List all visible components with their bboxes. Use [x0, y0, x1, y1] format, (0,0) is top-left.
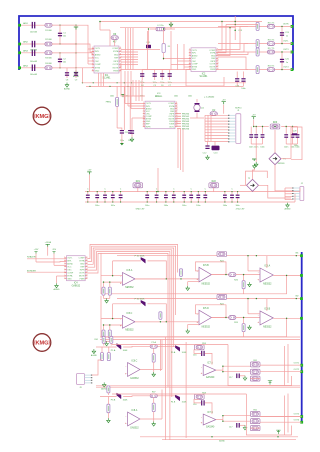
svg-text:12: 12	[176, 105, 178, 107]
svg-text:16: 16	[86, 277, 88, 279]
svg-text:GA5340: GA5340	[206, 376, 215, 379]
svg-text:GA5340: GA5340	[206, 426, 215, 429]
svg-text:100n: 100n	[95, 205, 99, 207]
svg-text:+: +	[201, 421, 203, 425]
svg-text:OSC: OSC	[95, 61, 100, 63]
svg-text:IC8.C: IC8.C	[131, 360, 137, 362]
svg-text:AGND: AGND	[67, 263, 73, 266]
svg-text:INPR: INPR	[211, 61, 216, 63]
svg-text:P2.A: P2.A	[152, 341, 157, 344]
svg-text:1n: 1n	[286, 62, 288, 64]
svg-text:AGND: AGND	[95, 54, 101, 57]
svg-text:13: 13	[176, 107, 178, 109]
svg-text:-: -	[201, 365, 202, 369]
svg-text:IC5.C: IC5.C	[126, 313, 132, 315]
svg-text:NE5532: NE5532	[202, 326, 211, 328]
svg-text:100n: 100n	[241, 88, 245, 90]
svg-text:IC5.A: IC5.A	[127, 269, 133, 272]
svg-text:P1.A: P1.A	[111, 349, 116, 352]
svg-text:GND: GND	[211, 55, 216, 57]
svg-text:100n: 100n	[164, 205, 168, 207]
svg-text:+5V: +5V	[87, 170, 91, 172]
svg-text:OUTR: OUTR	[283, 23, 289, 25]
svg-text:IC8.A: IC8.A	[132, 409, 138, 412]
svg-text:10n: 10n	[63, 36, 66, 38]
svg-text:100n/63: 100n/63	[30, 50, 38, 52]
svg-text:100n: 100n	[284, 147, 288, 149]
svg-text:-: -	[258, 270, 259, 274]
svg-text:AGND: AGND	[64, 88, 71, 91]
svg-text:VCC: VCC	[95, 58, 100, 60]
svg-text:P 10 100K: P 10 100K	[135, 299, 145, 301]
svg-text:SL1461: SL1461	[200, 76, 209, 78]
svg-text:R2 680: R2 680	[45, 39, 52, 41]
svg-text:R22: R22	[212, 181, 217, 183]
svg-text:100n: 100n	[294, 145, 298, 147]
svg-text:100n: 100n	[249, 147, 253, 149]
svg-text:MUTE: MUTE	[210, 66, 216, 68]
svg-text:AGND: AGND	[91, 354, 98, 357]
svg-text:AGND: AGND	[219, 440, 225, 443]
svg-text:IC7.B: IC7.B	[207, 412, 213, 414]
svg-text:R41: R41	[95, 339, 98, 341]
svg-text:INPR: INPR	[146, 126, 151, 128]
svg-text:-: -	[125, 364, 126, 368]
svg-text:C16: C16	[235, 86, 238, 88]
svg-text:COMP: COMP	[95, 64, 102, 66]
svg-text:OUTR: OUTR	[210, 64, 216, 66]
svg-text:+: +	[196, 277, 198, 281]
svg-text:BYPA: BYPA	[113, 50, 119, 53]
svg-text:VCC: VCC	[192, 58, 197, 60]
svg-text:100n: 100n	[188, 96, 192, 98]
svg-text:MUTE: MUTE	[79, 275, 85, 277]
svg-text:COMP: COMP	[67, 272, 74, 274]
svg-text:FMIN: FMIN	[210, 69, 215, 71]
svg-text:NE5532: NE5532	[263, 284, 272, 286]
svg-text:+: +	[125, 372, 127, 376]
svg-text:NE5532: NE5532	[202, 283, 211, 285]
svg-text:OUT2: OUT2	[294, 369, 300, 371]
svg-text:1n: 1n	[286, 35, 288, 37]
svg-text:IC6.B: IC6.B	[264, 309, 270, 311]
svg-text:10n: 10n	[63, 62, 66, 64]
svg-text:+5V: +5V	[222, 99, 226, 101]
svg-text:GND: GND	[67, 278, 72, 280]
svg-text:+: +	[201, 371, 203, 375]
svg-text:BYPA: BYPA	[210, 52, 216, 55]
svg-text:GA9632: GA9632	[72, 284, 81, 287]
svg-text:100n: 100n	[182, 205, 186, 207]
svg-text:100K: 100K	[123, 399, 128, 401]
svg-text:100n: 100n	[223, 205, 227, 207]
svg-text:BYPA: BYPA	[67, 274, 73, 277]
svg-text:R18 75: R18 75	[268, 66, 275, 68]
svg-text:R3 680: R3 680	[45, 58, 52, 60]
svg-text:= C.28442: = C.28442	[204, 97, 215, 99]
svg-text:100K: 100K	[182, 402, 187, 404]
svg-text:BYPA: BYPA	[79, 260, 85, 263]
svg-text:100K: 100K	[182, 352, 187, 354]
svg-text:SUP10: SUP10	[235, 108, 242, 110]
svg-text:15: 15	[86, 274, 88, 276]
svg-text:-: -	[125, 414, 126, 418]
svg-text:IC6.A: IC6.A	[264, 265, 270, 268]
svg-text:GND: GND	[80, 264, 85, 266]
svg-text:COMP: COMP	[112, 48, 119, 50]
svg-text:OSC: OSC	[192, 61, 197, 63]
svg-text:OUT6: OUT6	[294, 419, 300, 421]
svg-text:14: 14	[217, 62, 219, 64]
svg-text:2N2369: 2N2369	[277, 163, 285, 165]
svg-text:IC5.B: IC5.B	[203, 265, 209, 267]
svg-text:MUTE: MUTE	[113, 67, 119, 69]
svg-text:14: 14	[176, 110, 178, 112]
svg-text:+: +	[257, 320, 259, 324]
svg-text:R1 680: R1 680	[45, 30, 52, 32]
svg-text:100n: 100n	[145, 205, 149, 207]
svg-text:P4.B: P4.B	[171, 402, 176, 404]
svg-text:+5V: +5V	[252, 114, 256, 116]
svg-text:FREQ: FREQ	[106, 102, 112, 104]
svg-text:GND: GND	[95, 71, 100, 73]
svg-text:R4 680: R4 680	[45, 63, 52, 65]
svg-text:+15VA: +15VA	[44, 241, 51, 244]
svg-text:AGND: AGND	[146, 107, 152, 110]
svg-text:100n: 100n	[196, 205, 200, 207]
svg-text:100n/63: 100n/63	[30, 32, 38, 34]
svg-text:FMIN: FMIN	[80, 278, 85, 280]
svg-text:OUT3: OUT3	[283, 49, 289, 51]
svg-text:100n: 100n	[155, 96, 159, 98]
svg-text:100n/63: 100n/63	[30, 74, 38, 76]
svg-text:470u LEV: 470u LEV	[236, 209, 245, 211]
svg-text:-15V: -15V	[52, 249, 57, 251]
svg-text:IC5.D: IC5.D	[203, 308, 209, 310]
svg-text:100n: 100n	[110, 96, 114, 98]
svg-text:-: -	[197, 269, 198, 273]
svg-text:FMIN: FMIN	[113, 71, 118, 73]
svg-text:KMG: KMG	[35, 114, 48, 120]
svg-text:IC7.A: IC7.A	[207, 361, 213, 364]
svg-text:OUT5: OUT5	[294, 414, 300, 416]
svg-text:VCC: VCC	[67, 267, 72, 269]
svg-text:R16 75: R16 75	[268, 40, 275, 42]
svg-text:GND: GND	[192, 69, 197, 71]
svg-text:P3.B: P3.B	[111, 399, 116, 401]
svg-text:+15V: +15V	[34, 249, 39, 251]
svg-text:INPR: INPR	[80, 270, 85, 272]
svg-text:+: +	[196, 320, 198, 324]
svg-text:13: 13	[217, 60, 219, 62]
svg-text:+: +	[257, 277, 259, 281]
svg-text:+: +	[120, 281, 122, 285]
svg-text:+: +	[120, 324, 122, 328]
svg-text:AGND: AGND	[192, 54, 198, 57]
svg-text:GA5532: GA5532	[130, 426, 139, 429]
svg-text:OUTL: OUTL	[283, 41, 289, 43]
svg-text:100n: 100n	[111, 205, 115, 207]
svg-text:OUTL: OUTL	[95, 48, 101, 50]
svg-text:BYPA: BYPA	[146, 118, 152, 121]
svg-text:OUTL: OUTL	[67, 258, 73, 260]
svg-text:100n: 100n	[235, 205, 239, 207]
svg-text:-: -	[197, 312, 198, 316]
svg-text:OUTR: OUTR	[113, 64, 119, 66]
svg-text:P5.A: P5.A	[171, 351, 176, 354]
svg-text:100n: 100n	[174, 96, 178, 98]
svg-text:AGND: AGND	[284, 208, 291, 211]
svg-text:L2 22u: L2 22u	[157, 25, 164, 27]
svg-text:KMG: KMG	[35, 341, 48, 347]
svg-text:BYPA: BYPA	[95, 66, 101, 69]
svg-text:100K: 100K	[123, 350, 128, 352]
svg-text:9: 9	[120, 47, 121, 49]
svg-text:100n: 100n	[260, 147, 264, 149]
svg-text:9: 9	[86, 257, 87, 259]
svg-text:P 10 100K: P 10 100K	[135, 256, 145, 258]
svg-text:NE5532: NE5532	[263, 326, 272, 328]
svg-text:INPR: INPR	[114, 61, 119, 63]
svg-text:COMP: COMP	[209, 50, 216, 52]
svg-text:13: 13	[120, 60, 122, 62]
svg-text:R17 75: R17 75	[268, 48, 275, 50]
svg-text:R15 75: R15 75	[268, 22, 275, 24]
svg-text:AGND: AGND	[53, 288, 60, 291]
svg-text:OUTL: OUTL	[192, 50, 198, 52]
svg-text:15: 15	[217, 65, 219, 67]
svg-text:OUTR: OUTR	[79, 272, 85, 274]
svg-text:-: -	[258, 313, 259, 317]
svg-text:-: -	[201, 415, 202, 419]
svg-text:R21: R21	[136, 181, 141, 183]
svg-text:NE5532: NE5532	[125, 287, 134, 289]
svg-text:BYPA: BYPA	[192, 65, 198, 68]
svg-text:OUT4: OUT4	[283, 67, 289, 69]
svg-text:GA5532: GA5532	[130, 377, 139, 380]
svg-text:NE5532: NE5532	[125, 330, 134, 332]
svg-text:OUTL: OUTL	[169, 126, 175, 128]
svg-text:COMP: COMP	[192, 64, 199, 66]
svg-text:+: +	[125, 421, 127, 425]
svg-text:COMP: COMP	[79, 258, 86, 260]
svg-text:R20: R20	[273, 122, 278, 124]
svg-text:OSC: OSC	[67, 270, 72, 272]
svg-text:GND LEV: GND LEV	[136, 209, 145, 211]
svg-text:10: 10	[143, 125, 145, 127]
svg-text:OUT1: OUT1	[294, 362, 300, 364]
svg-text:GND: GND	[114, 55, 119, 57]
svg-text:11: 11	[176, 102, 178, 104]
svg-text:100n/63: 100n/63	[30, 61, 38, 63]
